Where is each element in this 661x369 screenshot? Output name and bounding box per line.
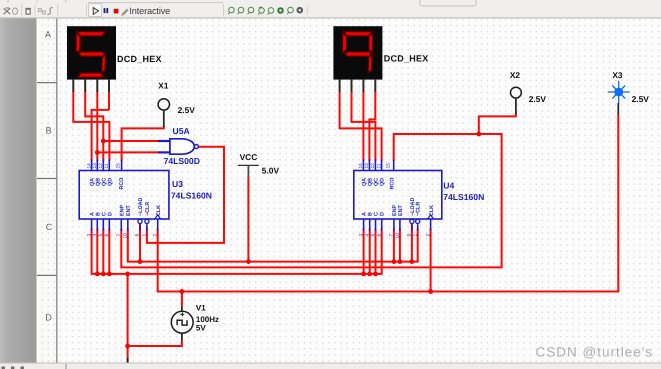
svg-text:C: C [46,222,53,232]
svg-text:74LS00D: 74LS00D [164,156,200,166]
svg-text:A: A [362,212,368,216]
svg-text:1: 1 [412,234,418,237]
svg-text:5: 5 [98,234,104,237]
svg-text:QD: QD [380,178,386,186]
svg-text:1: 1 [142,234,148,237]
svg-text:2.5V: 2.5V [178,105,196,115]
svg-text:D: D [107,212,113,216]
svg-text:15: 15 [116,163,122,169]
svg-text:11: 11 [376,163,382,168]
svg-text:12: 12 [98,163,104,169]
svg-text:QC: QC [373,178,379,186]
svg-text:2.5V: 2.5V [632,94,650,104]
svg-text:~LOAD: ~LOAD [138,197,144,216]
svg-text:12: 12 [370,163,376,169]
svg-text:9: 9 [407,234,413,237]
svg-text:2.5V: 2.5V [529,94,547,104]
svg-text:A: A [45,30,51,40]
svg-text:ENP: ENP [119,205,125,216]
svg-text:Interactive: Interactive [129,6,170,16]
svg-text:2: 2 [425,234,431,237]
svg-text:~CLR: ~CLR [145,202,151,216]
svg-text:CSDN @turtlee's: CSDN @turtlee's [536,345,654,360]
svg-text:6: 6 [104,234,110,237]
svg-text:X1: X1 [158,80,169,90]
svg-text:B: B [46,126,52,136]
svg-text:D: D [45,313,52,323]
svg-text:DCD_HEX: DCD_HEX [117,54,162,64]
svg-text:3: 3 [358,234,364,237]
svg-text:4: 4 [92,234,98,237]
svg-text:U4: U4 [443,180,454,190]
svg-text:74LS160N: 74LS160N [443,192,484,202]
svg-text:C: C [374,212,380,216]
svg-text:X3: X3 [612,70,623,80]
svg-text:DCD_HEX: DCD_HEX [384,53,429,63]
svg-text:X2: X2 [510,70,521,80]
svg-text:ENT: ENT [398,205,404,216]
svg-text:6: 6 [376,234,382,237]
svg-text:14: 14 [86,163,92,169]
svg-text:U5A: U5A [173,126,190,136]
svg-text:D: D [380,212,386,216]
svg-text:5.0V: 5.0V [262,166,280,176]
svg-text:CLK: CLK [156,205,162,216]
svg-text:13: 13 [92,163,98,169]
svg-text:10: 10 [123,233,129,239]
svg-text:15: 15 [385,163,391,169]
svg-text:CLK: CLK [429,205,435,216]
svg-text:3: 3 [86,234,92,237]
svg-text:VCC: VCC [240,152,258,162]
svg-text:V1: V1 [196,303,206,312]
svg-text:U3: U3 [172,179,183,189]
svg-text:QD: QD [107,178,113,186]
svg-text:13: 13 [364,163,370,169]
svg-text:ENT: ENT [126,205,132,216]
svg-text:RCO: RCO [390,178,396,190]
svg-text:7: 7 [116,234,122,237]
svg-text:RCO: RCO [119,178,125,190]
svg-text:7: 7 [389,234,395,237]
svg-text:11: 11 [104,163,110,168]
svg-text:10: 10 [395,233,401,239]
svg-text:~CLR: ~CLR [416,202,422,216]
svg-text:14: 14 [358,163,364,169]
svg-text:5: 5 [370,234,376,237]
svg-text:9: 9 [135,234,141,237]
svg-text:4: 4 [364,234,370,237]
svg-text:74LS160N: 74LS160N [171,190,212,200]
svg-text:5V: 5V [196,323,206,332]
svg-text:2: 2 [152,234,158,237]
